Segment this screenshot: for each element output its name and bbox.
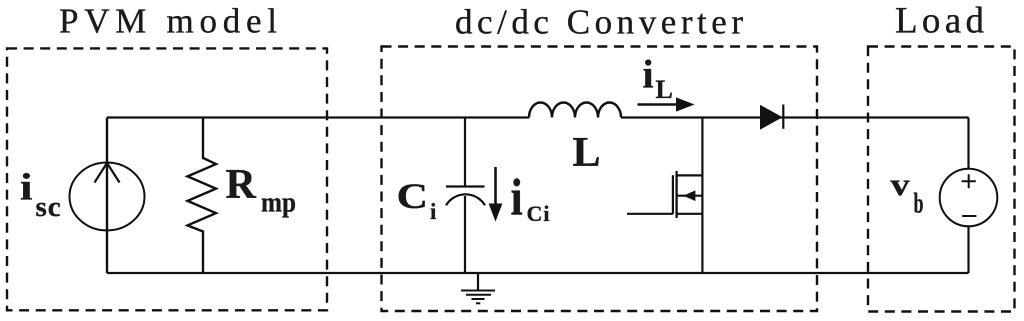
diode cathode bar (782, 105, 784, 129)
current source i_sc circle (70, 163, 145, 231)
svg-text:dc/dc Converter: dc/dc Converter (455, 3, 746, 42)
voltage source v_b circle (940, 169, 998, 227)
current arrow i_Ci (494, 167, 497, 206)
dc/dc Converter dashed box (382, 47, 818, 312)
transistor MOSFET source stub (677, 213, 703, 215)
wire top rail (right: inductor to load) (621, 116, 969, 118)
ground bar 3 (472, 298, 485, 300)
svg-text:Load: Load (895, 1, 987, 42)
ground bar 2 (466, 294, 491, 296)
wire bottom rail (107, 272, 969, 274)
ground bar 1 (461, 290, 495, 292)
capacitor C_i curved plate (446, 194, 485, 205)
svg-text:L: L (656, 75, 673, 104)
wire capacitor branch upper (464, 118, 466, 187)
svg-text:i: i (643, 52, 654, 97)
voltage source plus sign (962, 174, 976, 188)
svg-text:i: i (430, 199, 437, 224)
wire top rail (left: source to inductor) (107, 116, 529, 118)
PVM model dashed box (7, 48, 327, 310)
current arrow i_L (638, 103, 679, 106)
wire load branch lower (967, 226, 969, 273)
svg-text:Ci: Ci (527, 201, 551, 226)
svg-text:i: i (511, 169, 523, 226)
Load dashed box (868, 47, 1015, 312)
wire load branch upper (967, 118, 969, 170)
inductor L (529, 103, 621, 118)
svg-text:sc: sc (36, 191, 62, 223)
svg-text:PVM model: PVM model (59, 1, 280, 40)
transistor MOSFET channel bar (675, 171, 677, 218)
svg-text:v: v (891, 166, 910, 202)
voltage source minus sign (962, 215, 976, 217)
wire current source branch (106, 118, 108, 274)
svg-text:L: L (573, 130, 601, 176)
ground stub (477, 273, 479, 290)
transistor MOSFET gate bar (672, 175, 674, 214)
svg-text:R: R (226, 162, 257, 208)
capacitor C_i top plate (446, 185, 485, 187)
wire MOSFET gate lead (627, 213, 673, 215)
svg-text:i: i (20, 167, 33, 209)
wire MOSFET drain/source branch (701, 118, 703, 274)
wire capacitor branch lower (464, 196, 466, 273)
resistor R_mp (188, 118, 217, 274)
ground bar 4 (476, 302, 480, 304)
transistor MOSFET drain stub (677, 174, 703, 176)
svg-text:b: b (914, 189, 924, 220)
current source arrow head (95, 163, 120, 183)
diode triangle (760, 105, 783, 130)
transistor MOSFET body stub with arrow (677, 195, 703, 197)
svg-text:mp: mp (261, 188, 296, 219)
svg-text:C: C (397, 176, 429, 216)
